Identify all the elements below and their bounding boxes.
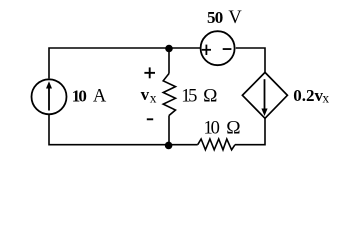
svg-text:0: 0	[215, 8, 224, 27]
svg-text:5: 5	[188, 87, 197, 107]
svg-text:0: 0	[78, 87, 87, 106]
svg-text:V: V	[228, 8, 242, 28]
svg-text:Ω: Ω	[226, 119, 240, 139]
svg-text:v: v	[141, 85, 150, 104]
svg-text:Ω: Ω	[203, 87, 217, 107]
svg-text:x: x	[322, 91, 329, 106]
svg-text:0.2v: 0.2v	[293, 86, 323, 105]
svg-text:0: 0	[211, 119, 220, 139]
svg-text:A: A	[93, 87, 107, 107]
svg-text:x: x	[150, 90, 157, 105]
